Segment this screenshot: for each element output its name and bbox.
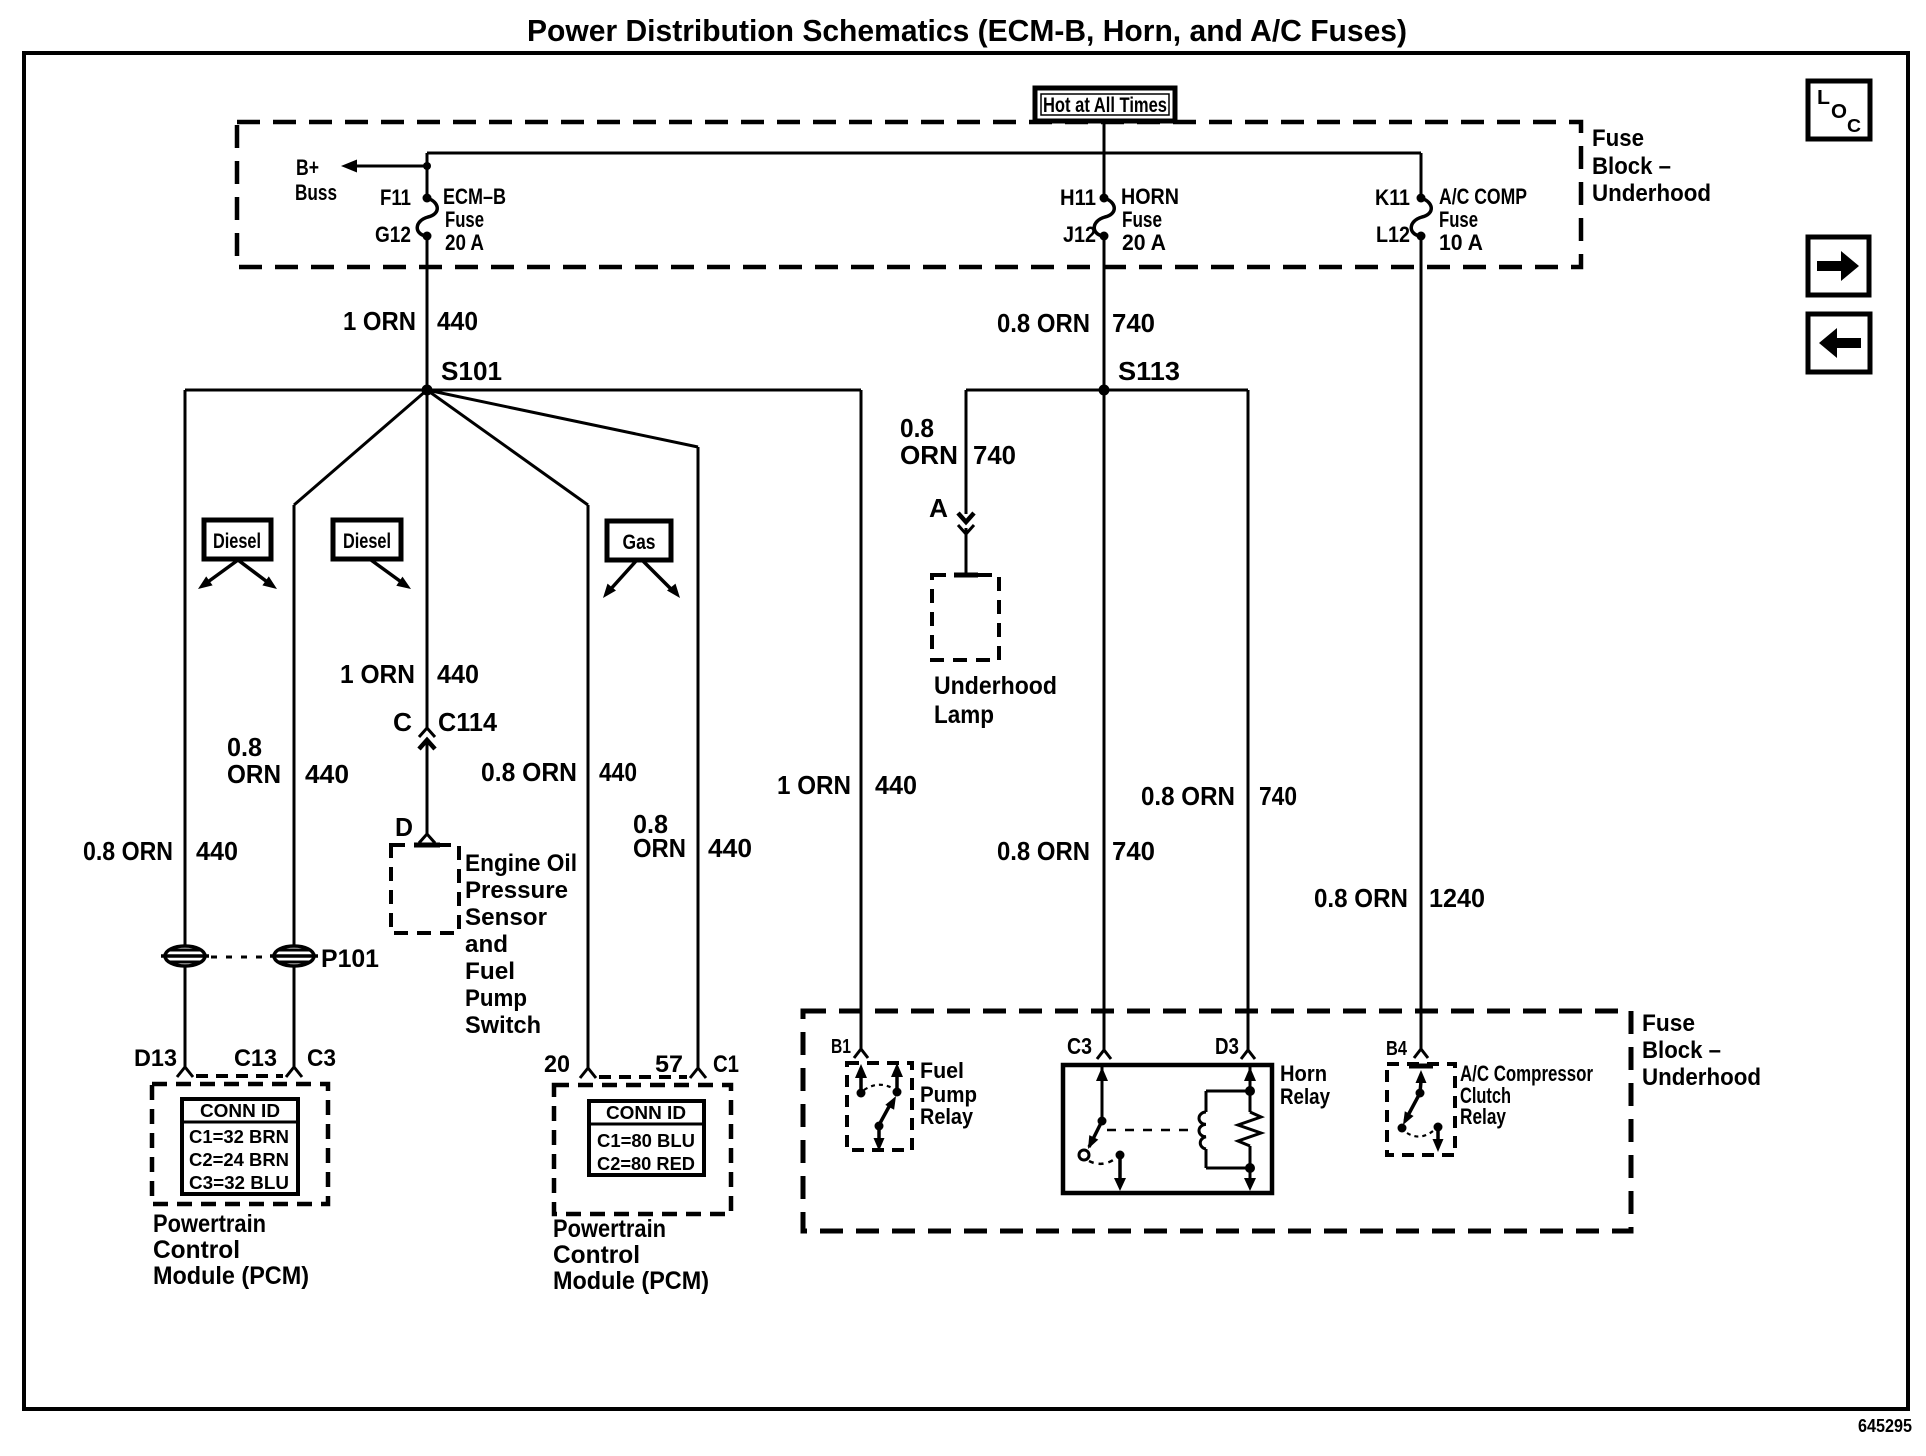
svg-text:S101: S101 [441,356,502,386]
svg-text:Horn: Horn [1280,1061,1327,1086]
svg-text:Relay: Relay [920,1104,974,1129]
svg-text:Fuse: Fuse [1439,207,1478,232]
svg-text:440: 440 [875,770,917,800]
svg-text:D: D [395,812,413,842]
wire: pin57 vertical [697,447,700,1068]
svg-text:440: 440 [437,306,478,336]
fuse ECM-B F11/G12 [423,194,432,203]
wire: C13 vertical upper [293,505,296,947]
wire: P101 to D13 pin [184,966,187,1067]
horn relay actuate dashed line [1107,1129,1196,1132]
wire: L12 down to B4 [1420,236,1423,1049]
svg-text:D3: D3 [1215,1033,1239,1059]
svg-text:440: 440 [305,759,349,789]
wire: P101 to C13 pin [293,966,296,1067]
svg-text:B4: B4 [1386,1038,1408,1060]
fuse HORN H11/J12 [1100,194,1109,203]
wire: S113 left to lamp drop [966,389,1104,392]
fuse A/C COMP K11/L12 [1417,194,1426,203]
svg-text:ECM–B: ECM–B [443,184,506,209]
in-line connector P101 [161,946,209,966]
svg-text:C3=32 BLU: C3=32 BLU [189,1173,289,1193]
wire: Hot at All Times down to bus/H11 [1103,121,1106,198]
horn relay box [1063,1065,1272,1193]
svg-text:Pump: Pump [465,985,527,1012]
svg-text:740: 740 [1112,836,1155,866]
svg-text:57: 57 [655,1051,683,1078]
svg-text:CONN ID: CONN ID [606,1103,686,1123]
wire: A connector to lamp [965,528,968,574]
splice S113 [1099,385,1110,396]
wire: J12 down to S113 [1103,236,1106,390]
wire: main bus horizontal [427,152,1421,155]
wire: D13 vertical upper [184,390,187,947]
horn relay C3 contact [1101,1067,1104,1120]
wire: lamp vertical upper [965,390,968,514]
svg-text:Diesel: Diesel [343,530,391,553]
svg-text:Module (PCM): Module (PCM) [153,1262,309,1290]
svg-text:440: 440 [708,833,752,863]
svg-text:Lamp: Lamp [934,701,994,729]
svg-text:1 ORN: 1 ORN [343,306,416,336]
wire: S101 diagonal to C13 drop [294,390,427,505]
wire: S101 diagonal to pin20 drop [427,390,588,505]
underhood lamp dashed box [954,573,978,578]
svg-text:Switch: Switch [465,1012,541,1039]
svg-text:Fuse: Fuse [1642,1010,1695,1037]
svg-text:Fuse: Fuse [1122,207,1162,232]
svg-text:0.8: 0.8 [900,413,934,443]
svg-text:Gas: Gas [623,531,656,554]
Hot at All Times box [1035,88,1175,121]
svg-text:20 A: 20 A [445,230,484,255]
svg-text:B+: B+ [296,155,319,180]
PCM2 CONN ID table [589,1101,704,1175]
svg-text:Control: Control [553,1241,640,1269]
svg-text:440: 440 [196,836,238,866]
svg-text:10 A: 10 A [1439,230,1483,255]
svg-text:Block –: Block – [1592,153,1671,180]
svg-text:0.8 ORN: 0.8 ORN [1314,883,1408,913]
svg-text:F11: F11 [380,185,411,210]
svg-text:C1=32 BRN: C1=32 BRN [189,1127,289,1147]
svg-text:645295: 645295 [1858,1416,1912,1436]
svg-text:B1: B1 [831,1036,851,1058]
wire: S113 down to horn relay C3 [1103,390,1106,1050]
wire: B1 vertical [860,390,863,1049]
svg-text:Relay: Relay [1280,1084,1331,1109]
svg-text:Fuel: Fuel [465,958,515,985]
svg-text:CONN ID: CONN ID [200,1101,280,1121]
svg-text:0.8 ORN: 0.8 ORN [1141,781,1235,811]
wire: S101 right horizontal to B1 drop [427,389,861,392]
svg-text:D13: D13 [134,1045,177,1072]
A/C clutch relay dashed box [1387,1064,1455,1155]
svg-text:A: A [929,493,948,523]
svg-text:0.8 ORN: 0.8 ORN [481,757,577,787]
svg-text:K11: K11 [1375,185,1410,210]
svg-text:A/C COMP: A/C COMP [1439,184,1527,209]
wire: bus corner down to F11 [426,153,429,198]
svg-text:740: 740 [973,440,1016,470]
fuse block underhood (top) dashed box [237,122,1581,267]
svg-text:C3: C3 [307,1045,336,1072]
svg-text:20 A: 20 A [1122,230,1166,255]
right arrow icon box [1808,237,1869,295]
Diesel tag 1 [204,520,271,559]
svg-text:Diesel: Diesel [213,530,261,553]
A/C relay top contact bar [1409,1064,1433,1069]
svg-text:G12: G12 [375,222,411,247]
PCM2 dashed box [554,1085,731,1214]
wire: pin20 vertical [587,505,590,1068]
wire: S101 diagonal to pin57 drop [427,390,698,447]
fuel pump relay switch blade [879,1103,891,1125]
horn relay resistor [1249,1067,1252,1091]
svg-text:Powertrain: Powertrain [553,1215,666,1243]
PCM1 CONN ID table [182,1099,298,1194]
svg-text:C114: C114 [438,707,498,737]
svg-text:Pressure: Pressure [465,877,568,904]
svg-text:740: 740 [1112,308,1155,338]
wire: C114 down to D pin [426,743,429,834]
A/C relay switch blade [1405,1093,1420,1121]
svg-text:440: 440 [599,757,637,787]
B+ Buss arrow [423,162,431,170]
Diesel tag 2 [333,520,401,559]
svg-text:C2=24 BRN: C2=24 BRN [189,1150,289,1170]
svg-text:C: C [393,707,412,737]
svg-text:Relay: Relay [1460,1104,1507,1129]
svg-text:Underhood: Underhood [934,672,1057,700]
Gas tag [607,521,671,560]
svg-text:C: C [1847,116,1861,136]
PCM1 dashed box [152,1084,328,1204]
svg-text:J12: J12 [1063,222,1096,247]
fuel pump relay dashed box [847,1063,912,1150]
svg-text:Sensor: Sensor [465,904,547,931]
svg-text:HORN: HORN [1121,184,1179,209]
svg-text:Fuel: Fuel [920,1058,964,1083]
svg-text:Hot at All Times: Hot at All Times [1043,94,1167,117]
wire: G12 down to S101 [426,236,429,390]
wire: D3 vertical [1247,390,1250,1050]
svg-text:1240: 1240 [1429,883,1485,913]
svg-text:Fuse: Fuse [445,207,484,232]
svg-text:440: 440 [437,659,479,689]
svg-text:0.8 ORN: 0.8 ORN [997,308,1090,338]
svg-text:Block –: Block – [1642,1037,1721,1064]
horn relay coil branch [1206,1090,1250,1093]
svg-text:C13: C13 [234,1045,277,1072]
svg-text:L12: L12 [1376,222,1410,247]
svg-text:and: and [465,931,508,958]
svg-text:Control: Control [153,1236,240,1264]
left arrow icon box [1808,314,1870,372]
splice S101 [422,385,433,396]
svg-text:C3: C3 [1067,1033,1092,1059]
svg-text:ORN: ORN [227,759,281,789]
wire: S101 straight down to C114 [426,390,429,728]
Loc icon box [1808,81,1870,139]
wire: S101 left horizontal to D13 drop [185,389,427,392]
svg-text:L: L [1817,87,1830,109]
svg-text:Power Distribution Schematics: Power Distribution Schematics (ECM-B, Ho… [527,13,1407,48]
fuel pump relay contact arrows [859,1077,863,1093]
svg-text:P101: P101 [321,945,379,973]
svg-text:H11: H11 [1060,185,1096,210]
engine oil pressure sensor dashed box [414,843,440,848]
horn relay switch blade [1089,1121,1102,1147]
svg-text:740: 740 [1259,781,1297,811]
svg-text:0.8: 0.8 [227,732,262,762]
svg-text:Engine Oil: Engine Oil [465,850,577,877]
svg-text:Powertrain: Powertrain [153,1210,266,1238]
svg-text:C2=80 RED: C2=80 RED [597,1154,695,1174]
svg-text:0.8 ORN: 0.8 ORN [997,836,1090,866]
svg-text:0.8 ORN: 0.8 ORN [83,836,173,866]
svg-text:1 ORN: 1 ORN [340,659,415,689]
fuel pump relay coil down arrow [877,1128,881,1139]
svg-text:Module (PCM): Module (PCM) [553,1267,709,1295]
svg-text:Buss: Buss [295,180,337,205]
svg-text:ORN: ORN [633,833,686,863]
svg-text:O: O [1831,101,1847,123]
svg-text:ORN: ORN [900,440,958,470]
svg-text:S113: S113 [1118,356,1180,386]
svg-text:Underhood: Underhood [1592,180,1711,207]
svg-text:C1=80 BLU: C1=80 BLU [597,1131,695,1151]
svg-text:Fuse: Fuse [1592,125,1644,152]
svg-text:Underhood: Underhood [1642,1064,1761,1091]
svg-text:1 ORN: 1 ORN [777,770,851,800]
fuse block underhood (bottom) dashed box [803,1011,1631,1231]
svg-text:20: 20 [544,1051,570,1078]
svg-text:C1: C1 [713,1051,739,1078]
wire: S113 right to D3 drop [1104,389,1248,392]
wire: bus corner down to K11 [1420,153,1423,198]
A/C relay armature arrow [1420,1081,1421,1093]
